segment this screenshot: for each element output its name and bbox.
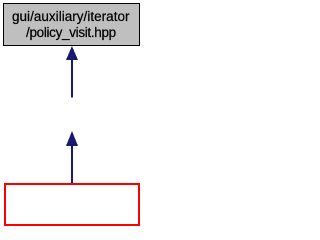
svg-text:/policy_visit.hpp: /policy_visit.hpp [26, 25, 116, 40]
current file node (red, empty) [5, 184, 139, 225]
included-by arrow 2 (lower) [66, 131, 78, 184]
included-by arrow 1 (upper) [66, 46, 78, 98]
node gui/auxiliary/iterator/policy_visit.hpp [4, 4, 140, 46]
svg-text:gui/auxiliary/iterator: gui/auxiliary/iterator [12, 9, 130, 24]
